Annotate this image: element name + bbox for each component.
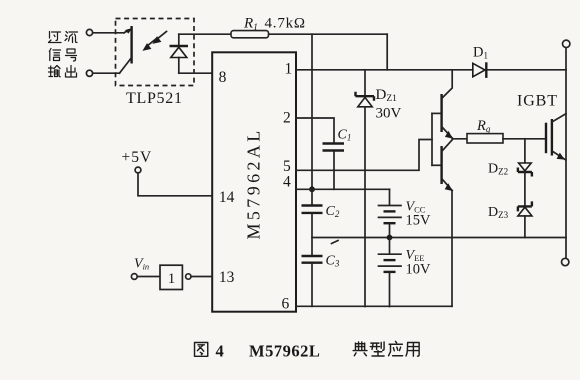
light arrows (LED to transistor) [142,32,166,51]
label 过流信号输出 (overcurrent signal output) [49,32,78,78]
transistor Q2 (lower of totem pole) [432,140,453,191]
diode D1 [473,62,487,78]
svg-text:4: 4 [216,342,224,361]
wire rail drop x=310.5 (top rail to pin4) [311,34,313,189]
svg-text:IGBT: IGBT [517,93,558,110]
wire gate line [503,138,546,140]
svg-text:TLP521: TLP521 [126,90,183,107]
wire right rail [565,48,567,258]
caption 图4 M57962L 典型应用 [195,341,420,360]
wire top rail (LED cathode to R1 to corner) [179,33,387,35]
svg-text:1: 1 [285,61,293,78]
capacitor C2 [302,189,323,255]
svg-text:13: 13 [219,269,235,286]
wire bubble to pin 13 [191,276,212,278]
wire pin 6 bottom rail [296,305,452,307]
terminal emitter (bottom right) [562,258,569,265]
应 [389,341,403,355]
battery Vcc 15V [379,189,402,237]
型 [370,342,384,356]
号 [66,49,77,61]
wire mid rail (0V line) [312,237,566,239]
svg-text:30V: 30V [376,106,402,122]
zener diode Dz2 [518,139,532,207]
phototransistor of TLP521 [120,26,133,73]
svg-text:14: 14 [219,189,235,206]
wire emitter node to Rg [452,138,467,140]
信 [49,49,60,61]
svg-text:2: 2 [283,110,291,127]
node pin4 junction dot [309,186,315,192]
流 [65,32,78,43]
输 [49,66,61,77]
wire pin 1 line (to D1 and right rail) [296,69,566,71]
transistor Q1 (NPN, upper of totem pole) [432,70,453,139]
battery VEE 10V [379,238,402,307]
terminal +5V [135,167,141,173]
zener diode Dz1 30V [356,70,375,307]
resistor R1 [231,31,269,38]
svg-text:10V: 10V [406,262,432,278]
op-amp/driver IC U1 M57962AL box [212,52,296,311]
wire base link vertical [431,113,433,165]
过 [49,32,62,43]
zener diode Dz3 [518,201,532,237]
图 [195,343,208,357]
resistor Rg [467,134,503,143]
wire upper terminal to phototransistor collector [93,32,124,34]
svg-text:M57962L: M57962L [249,342,320,361]
wire pin 4 line [296,188,390,190]
wire Vin to gate [137,276,160,278]
svg-text:5: 5 [283,158,291,175]
inverter output bubble [186,274,191,279]
svg-text:4: 4 [283,174,291,191]
wire pin 2 to C1 [296,118,334,189]
node battery junction dot [387,235,393,241]
terminal upper (signal output +) [86,29,92,35]
svg-text:15V: 15V [406,213,432,229]
optocoupler dashed box TLP521 [116,19,195,86]
典 [353,342,367,356]
terminal collector (top right) [563,40,570,47]
IGBT symbol [546,114,566,160]
terminal Vin [131,274,137,280]
svg-text:8: 8 [219,69,227,86]
svg-text:1: 1 [168,271,176,287]
svg-text:M57962AL: M57962AL [244,127,264,239]
wire +5V to pin 14 [138,173,212,196]
wire corner down to pin 1 line [386,34,388,70]
LED of TLP521 [170,34,189,73]
wire pin 5 to transistor bases [296,140,432,171]
capacitor C3 [302,256,323,306]
出 [66,66,77,78]
terminal lower (signal output -) [86,70,92,76]
capacitor C1 [323,144,345,151]
wire Q2 collector down to bottom rail [451,191,453,307]
svg-text:R1 4.7kΩ: R1 4.7kΩ [243,16,306,34]
inverter gate "1" box [160,265,182,289]
stray tick mark [332,241,339,244]
wire LED anode to pin 8 [179,72,212,74]
svg-text:6: 6 [282,296,290,313]
wire lower terminal to phototransistor emitter [93,72,120,74]
用 [406,343,419,357]
svg-text:+5V: +5V [122,149,153,166]
